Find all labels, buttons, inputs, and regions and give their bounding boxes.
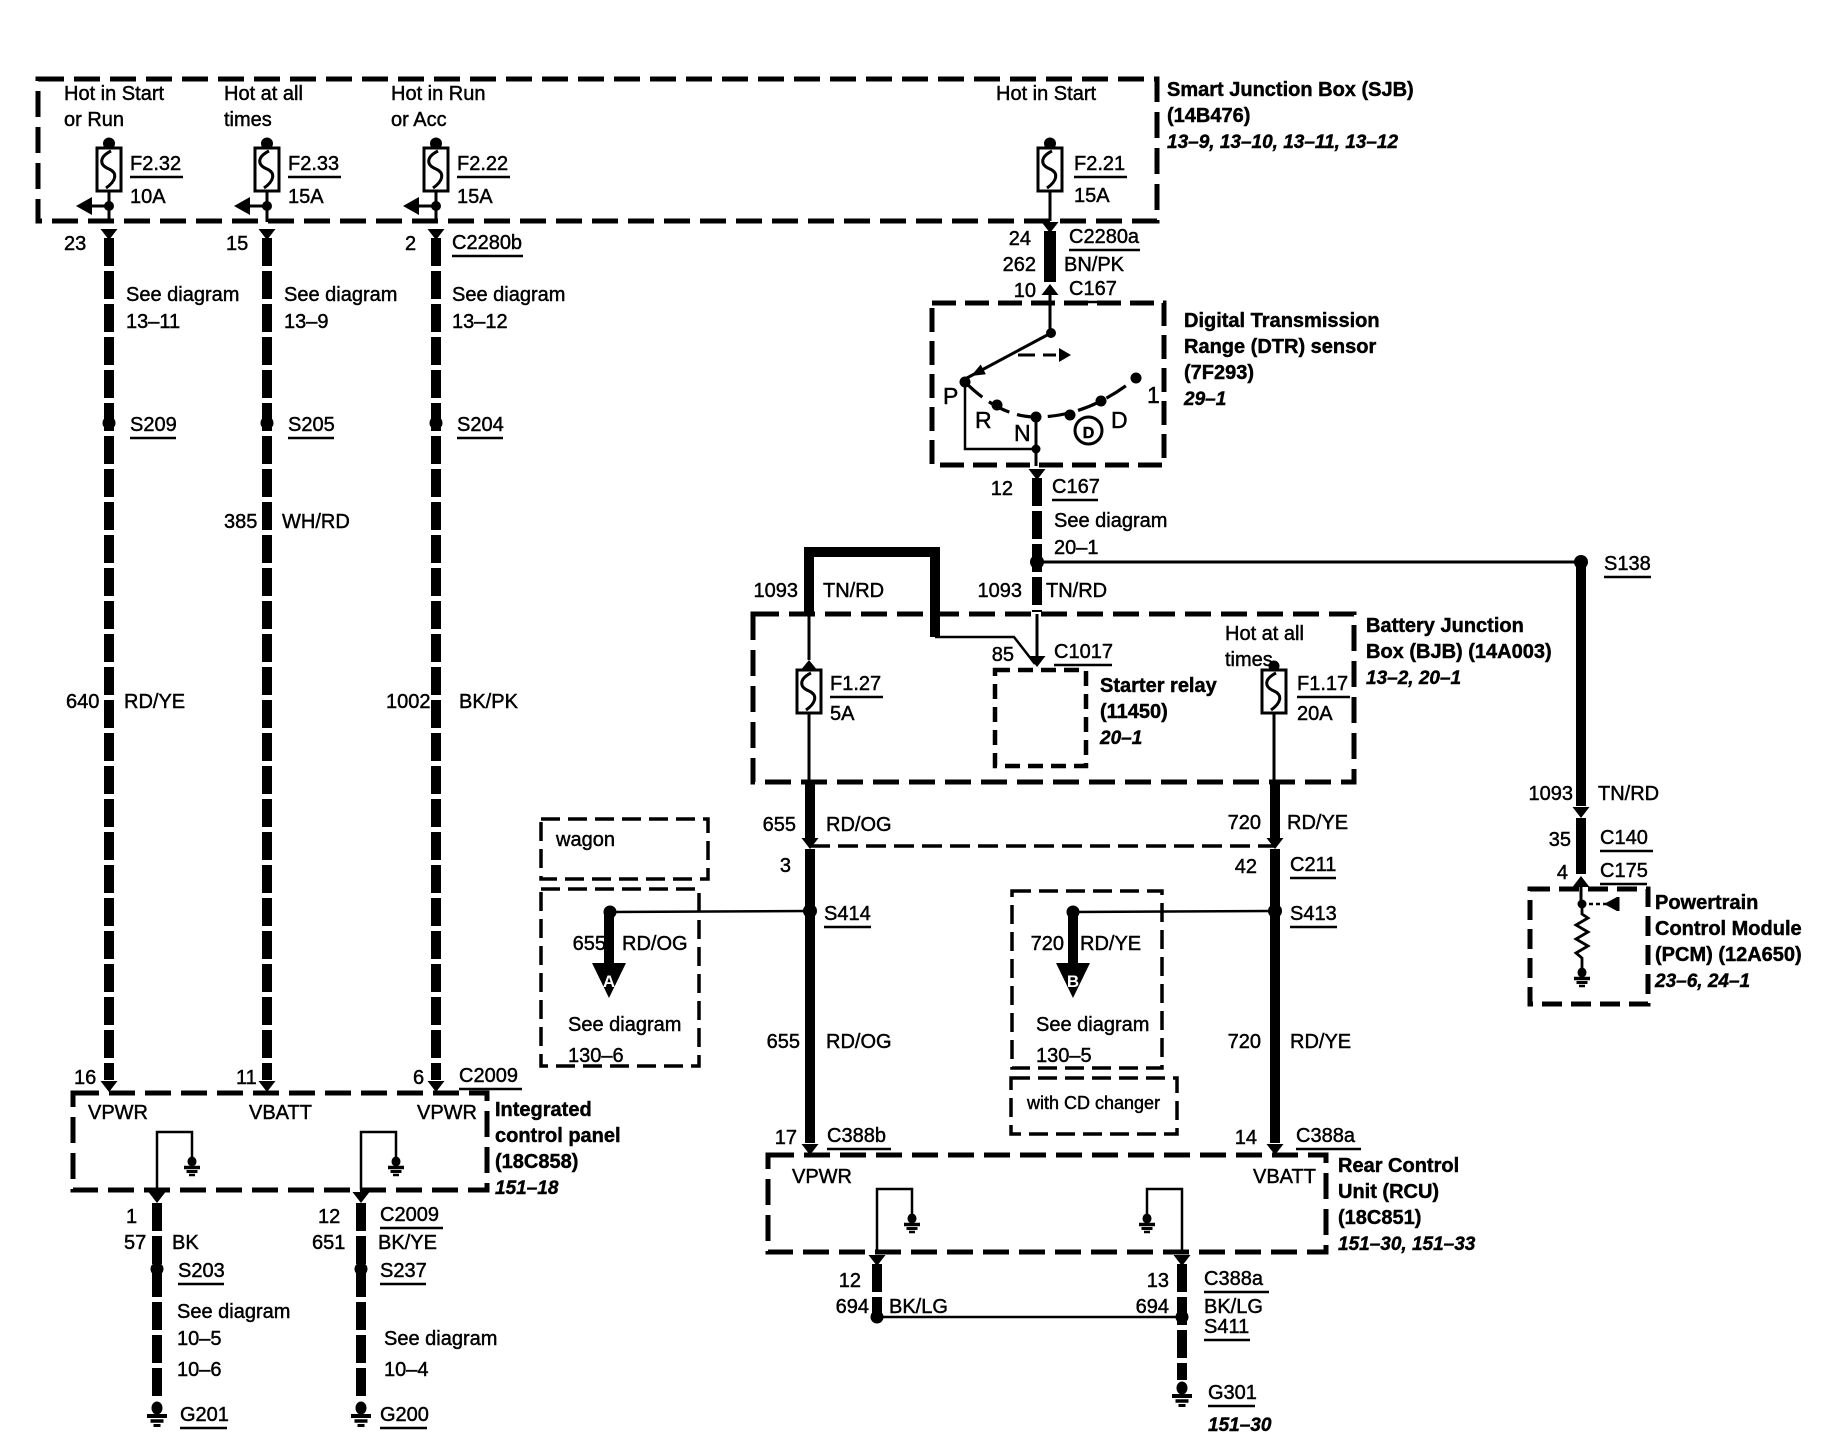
svg-text:(PCM) (12A650): (PCM) (12A650) — [1655, 944, 1802, 966]
DTR common node — [1046, 328, 1056, 338]
svg-text:RD/YE: RD/YE — [1080, 933, 1141, 955]
wire from SJB pin 23 (x=109) — [101, 229, 118, 240]
splice S204 — [430, 417, 443, 430]
svg-text:BK/LG: BK/LG — [889, 1296, 948, 1318]
svg-text:720: 720 — [1228, 812, 1261, 834]
svg-text:S413: S413 — [1290, 903, 1337, 925]
svg-text:control panel: control panel — [495, 1125, 621, 1147]
svg-text:16: 16 — [74, 1067, 96, 1089]
svg-text:WH/RD: WH/RD — [282, 511, 350, 533]
svg-text:Hot at all: Hot at all — [1225, 623, 1304, 645]
svg-text:20–1: 20–1 — [1099, 728, 1142, 749]
Rear Control Unit enclosure — [768, 1155, 1326, 1252]
svg-text:Starter relay: Starter relay — [1100, 675, 1218, 697]
svg-text:S237: S237 — [380, 1260, 427, 1282]
svg-text:See diagram: See diagram — [1054, 510, 1167, 532]
svg-text:F2.21: F2.21 — [1074, 153, 1125, 175]
svg-text:RD/YE: RD/YE — [124, 691, 185, 713]
Powertrain Control Module enclosure — [1530, 889, 1648, 1004]
wire SJB pin 24 to DTR (262 BN/PK) — [1042, 222, 1059, 233]
svg-text:VPWR: VPWR — [417, 1102, 477, 1124]
wire below F1.17 — [1273, 713, 1276, 780]
splice S138 — [1574, 555, 1588, 569]
svg-text:See diagram: See diagram — [384, 1328, 497, 1350]
svg-text:RD/OG: RD/OG — [826, 1031, 892, 1053]
svg-text:694: 694 — [836, 1296, 869, 1318]
svg-text:C2009: C2009 — [459, 1065, 518, 1087]
svg-text:BK/PK: BK/PK — [459, 691, 519, 713]
svg-text:G301: G301 — [1208, 1382, 1257, 1404]
svg-text:385: 385 — [224, 511, 257, 533]
svg-text:35: 35 — [1549, 829, 1571, 851]
wire RCU pin 12 to S411 (694 BK/LG) — [869, 1255, 886, 1266]
svg-text:130–6: 130–6 — [568, 1045, 624, 1067]
svg-text:See diagram: See diagram — [177, 1301, 290, 1323]
wire below F1.27 — [808, 713, 811, 780]
splice S203 — [151, 1263, 164, 1276]
splice S205 — [261, 417, 274, 430]
svg-text:1002: 1002 — [386, 691, 431, 713]
branch-B option box — [1012, 891, 1162, 1068]
svg-text:17: 17 — [775, 1127, 797, 1149]
svg-text:13–11: 13–11 — [126, 311, 180, 333]
svg-text:6: 6 — [413, 1067, 424, 1089]
wire RCU pin 13 to G301 (694 BK/LG) — [1174, 1255, 1191, 1266]
svg-text:20–1: 20–1 — [1054, 537, 1099, 559]
svg-text:13–2, 20–1: 13–2, 20–1 — [1366, 668, 1461, 689]
svg-text:15A: 15A — [288, 186, 324, 208]
PCM internal ground — [1578, 968, 1587, 978]
svg-text:10–6: 10–6 — [177, 1359, 222, 1381]
fuse F2.21 15A — [1044, 138, 1056, 150]
svg-text:640: 640 — [66, 691, 99, 713]
svg-text:Hot at all: Hot at all — [224, 83, 303, 105]
svg-text:Hot in Start: Hot in Start — [64, 83, 164, 105]
svg-text:BK: BK — [172, 1232, 199, 1254]
svg-text:Battery Junction: Battery Junction — [1366, 615, 1524, 637]
branch-A tap node — [604, 906, 617, 919]
svg-text:C175: C175 — [1600, 860, 1648, 882]
svg-text:Powertrain: Powertrain — [1655, 892, 1758, 914]
svg-text:2: 2 — [405, 233, 416, 255]
branch-A off-page arrow A — [604, 912, 614, 964]
wire below fuse F2.22 with branch arrow — [435, 191, 438, 222]
svg-text:F2.32: F2.32 — [130, 153, 181, 175]
svg-text:C388b: C388b — [827, 1125, 886, 1147]
RCU internal ground circuit (right) — [1147, 1189, 1182, 1252]
svg-text:1: 1 — [1147, 382, 1160, 408]
wire ICP pin 1 to G201 (57 BK) — [149, 1192, 166, 1203]
svg-text:BK/LG: BK/LG — [1204, 1296, 1263, 1318]
ICP internal ground circuit (right) — [361, 1132, 396, 1190]
svg-text:10: 10 — [1014, 280, 1036, 302]
svg-text:13–9, 13–10, 13–11, 13–12: 13–9, 13–10, 13–11, 13–12 — [1167, 132, 1398, 153]
DTR contact arc — [965, 378, 1136, 417]
branch-B link wire to S413 — [1073, 911, 1275, 912]
svg-text:720: 720 — [1228, 1031, 1261, 1053]
svg-text:VPWR: VPWR — [88, 1102, 148, 1124]
svg-text:See diagram: See diagram — [1036, 1014, 1149, 1036]
svg-text:See diagram: See diagram — [126, 284, 239, 306]
DTR contact N — [1031, 412, 1042, 423]
svg-text:(11450): (11450) — [1100, 701, 1168, 723]
wire BJB to RCU pin 17 (655 RD/OG) — [805, 780, 815, 838]
svg-text:S203: S203 — [178, 1260, 225, 1282]
svg-text:Rear Control: Rear Control — [1338, 1155, 1459, 1177]
svg-text:S209: S209 — [130, 414, 177, 436]
svg-text:S414: S414 — [824, 903, 871, 925]
branch-A option box — [541, 889, 699, 1066]
svg-text:G201: G201 — [180, 1404, 229, 1426]
PCM internal resistor — [1576, 904, 1588, 968]
DTR P-to-N link wire — [965, 382, 1036, 449]
svg-text:15A: 15A — [1074, 185, 1110, 207]
svg-text:1: 1 — [126, 1206, 137, 1228]
svg-text:10A: 10A — [130, 186, 166, 208]
svg-text:4: 4 — [1557, 862, 1568, 884]
svg-text:(7F293): (7F293) — [1184, 362, 1254, 384]
thick 1093 TN/RD jumper wire — [809, 552, 935, 637]
svg-text:1093: 1093 — [978, 580, 1023, 602]
splice S411 tie line — [871, 1311, 884, 1324]
ICP internal ground circuit (left) — [157, 1132, 192, 1190]
svg-text:C2009: C2009 — [380, 1204, 439, 1226]
Battery Junction Box enclosure — [753, 614, 1354, 782]
svg-text:11: 11 — [236, 1067, 257, 1089]
svg-text:VBATT: VBATT — [249, 1102, 312, 1124]
DTR contact D (circled) — [1065, 410, 1076, 421]
svg-text:130–5: 130–5 — [1036, 1045, 1092, 1067]
svg-text:TN/RD: TN/RD — [1046, 580, 1107, 602]
wagon option box — [541, 819, 708, 879]
svg-text:C2280a: C2280a — [1069, 226, 1140, 248]
svg-text:VPWR: VPWR — [792, 1166, 852, 1188]
branch-B off-page arrow B — [1068, 912, 1078, 964]
svg-text:Box (BJB) (14A003): Box (BJB) (14A003) — [1366, 641, 1552, 663]
ground G301 — [1177, 1382, 1188, 1395]
svg-text:or Run: or Run — [64, 109, 124, 131]
RCU internal ground circuit (left) — [877, 1189, 912, 1252]
svg-text:TN/RD: TN/RD — [1598, 783, 1659, 805]
svg-text:(18C858): (18C858) — [495, 1151, 578, 1173]
svg-text:85: 85 — [992, 644, 1014, 666]
splice S414 — [803, 904, 817, 918]
svg-text:RD/YE: RD/YE — [1290, 1031, 1351, 1053]
wire into BJB to relay coil — [1036, 614, 1039, 660]
branch-B tap node — [1067, 906, 1080, 919]
svg-text:655: 655 — [763, 814, 796, 836]
svg-text:B: B — [1067, 972, 1079, 991]
svg-text:times: times — [224, 109, 272, 131]
svg-text:S205: S205 — [288, 414, 335, 436]
svg-text:F1.27: F1.27 — [830, 673, 881, 695]
DTR motion arrow — [1018, 354, 1056, 357]
svg-text:13: 13 — [1147, 1270, 1169, 1292]
fuse F2.32 10A — [103, 138, 115, 150]
svg-text:151–30: 151–30 — [1208, 1415, 1272, 1436]
svg-text:times: times — [1225, 649, 1273, 671]
svg-text:1093: 1093 — [754, 580, 799, 602]
wire DTR pin 12 to starter relay (1093 TN/RD) — [1029, 469, 1046, 480]
svg-text:13–9: 13–9 — [284, 311, 329, 333]
wire BJB to RCU pin 14 (720 RD/YE) — [1270, 780, 1280, 838]
jumper link to relay pin 85 — [935, 637, 1035, 664]
svg-text:C211: C211 — [1290, 854, 1336, 876]
svg-text:14: 14 — [1235, 1127, 1257, 1149]
svg-text:12: 12 — [839, 1270, 861, 1292]
svg-text:BN/PK: BN/PK — [1064, 254, 1125, 276]
svg-text:5A: 5A — [830, 703, 855, 725]
svg-text:RD/YE: RD/YE — [1287, 812, 1348, 834]
svg-text:20A: 20A — [1297, 703, 1333, 725]
svg-text:VBATT: VBATT — [1253, 1166, 1316, 1188]
svg-text:RD/OG: RD/OG — [622, 933, 688, 955]
svg-text:TN/RD: TN/RD — [823, 580, 884, 602]
svg-text:Hot in Start: Hot in Start — [996, 83, 1096, 105]
branch wire to S138 — [1037, 561, 1581, 564]
svg-text:651: 651 — [312, 1232, 345, 1254]
svg-text:S204: S204 — [457, 414, 504, 436]
svg-text:See diagram: See diagram — [568, 1014, 681, 1036]
svg-text:wagon: wagon — [555, 829, 615, 851]
svg-text:with CD changer: with CD changer — [1026, 1093, 1160, 1113]
DTR rotor wiper arm to P — [965, 333, 1051, 379]
svg-text:RD/OG: RD/OG — [826, 814, 892, 836]
svg-text:Unit (RCU): Unit (RCU) — [1338, 1181, 1439, 1203]
svg-text:10–4: 10–4 — [384, 1359, 429, 1381]
DTR contact P — [960, 377, 971, 388]
svg-text:or Acc: or Acc — [391, 109, 447, 131]
svg-text:15A: 15A — [457, 186, 493, 208]
splice S209 — [103, 417, 116, 430]
svg-text:Control Module: Control Module — [1655, 918, 1802, 940]
fuse F1.17 20A — [1269, 661, 1280, 672]
branch-A link wire to S414 — [610, 911, 810, 912]
svg-text:S138: S138 — [1604, 553, 1651, 575]
svg-text:BK/YE: BK/YE — [378, 1232, 437, 1254]
svg-text:13–12: 13–12 — [452, 311, 508, 333]
svg-text:12: 12 — [318, 1206, 340, 1228]
DTR contact 1 — [1096, 396, 1107, 407]
svg-text:720: 720 — [1031, 933, 1064, 955]
wire below fuse F2.32 with branch arrow — [108, 191, 111, 222]
svg-text:(18C851): (18C851) — [1338, 1207, 1421, 1229]
svg-text:42: 42 — [1235, 856, 1257, 878]
svg-text:262: 262 — [1003, 254, 1036, 276]
ground G201 — [152, 1402, 163, 1415]
svg-text:C140: C140 — [1600, 827, 1648, 849]
wire below fuse F2.21 — [1049, 191, 1052, 221]
svg-text:See diagram: See diagram — [452, 284, 565, 306]
svg-text:S411: S411 — [1204, 1316, 1249, 1338]
Starter relay enclosure — [995, 670, 1086, 766]
svg-text:694: 694 — [1136, 1296, 1169, 1318]
svg-text:N: N — [1014, 420, 1031, 446]
svg-text:C1017: C1017 — [1054, 641, 1113, 663]
svg-text:D: D — [1111, 407, 1128, 433]
svg-text:P: P — [943, 383, 958, 409]
svg-text:C167: C167 — [1069, 278, 1117, 300]
svg-text:C388a: C388a — [1296, 1125, 1356, 1147]
svg-text:3: 3 — [780, 855, 791, 877]
svg-text:Range (DTR) sensor: Range (DTR) sensor — [1184, 336, 1376, 358]
svg-text:10–5: 10–5 — [177, 1328, 222, 1350]
svg-text:29–1: 29–1 — [1183, 389, 1226, 410]
svg-text:Integrated: Integrated — [495, 1099, 592, 1121]
wire below fuse F2.33 with branch arrow — [266, 191, 269, 222]
ground G200 — [356, 1402, 367, 1415]
svg-text:F2.22: F2.22 — [457, 153, 508, 175]
Integrated Control Panel enclosure — [73, 1093, 487, 1190]
connector C211 boundary — [810, 844, 1275, 848]
svg-text:C388a: C388a — [1204, 1268, 1264, 1290]
svg-text:57: 57 — [124, 1232, 146, 1254]
svg-text:A: A — [603, 972, 615, 991]
svg-text:C2280b: C2280b — [452, 232, 522, 254]
wire from SJB pin 15 (x=267) — [259, 229, 276, 240]
svg-text:655: 655 — [573, 933, 606, 955]
wire from SJB pin 2 (x=436) — [428, 229, 445, 240]
svg-text:Digital Transmission: Digital Transmission — [1184, 310, 1380, 332]
wire ICP pin 12 to G200 (651 BK/YE) — [353, 1192, 370, 1203]
svg-text:24: 24 — [1009, 228, 1031, 250]
svg-text:Smart Junction Box (SJB): Smart Junction Box (SJB) — [1167, 79, 1414, 101]
svg-text:23: 23 — [64, 233, 86, 255]
DTR output wire from N — [1035, 417, 1038, 466]
svg-text:151–18: 151–18 — [495, 1178, 559, 1199]
svg-text:655: 655 — [767, 1031, 800, 1053]
splice S413 — [1268, 904, 1282, 918]
Digital Transmission Range sensor enclosure — [932, 303, 1164, 465]
svg-text:15: 15 — [226, 233, 248, 255]
fuse F2.22 15A — [430, 138, 442, 150]
svg-text:C167: C167 — [1052, 476, 1100, 498]
Smart Junction Box (SJB) enclosure — [38, 79, 1157, 221]
svg-text:(14B476): (14B476) — [1167, 105, 1250, 127]
svg-text:12: 12 — [991, 478, 1013, 500]
DTR contact R — [992, 400, 1003, 411]
splice S237 — [355, 1263, 368, 1276]
junction node to S138 branch — [1030, 555, 1044, 569]
PCM internal node and stub arrow — [1578, 900, 1587, 909]
svg-text:D: D — [1083, 425, 1095, 442]
wire S138 to PCM (1093 TN/RD) — [1576, 562, 1586, 806]
with CD changer option box — [1011, 1078, 1177, 1134]
svg-text:23–6, 24–1: 23–6, 24–1 — [1654, 971, 1750, 992]
svg-text:Hot in Run: Hot in Run — [391, 83, 486, 105]
svg-text:F2.33: F2.33 — [288, 153, 339, 175]
fuse F2.33 15A — [261, 138, 273, 150]
svg-text:151–30, 151–33: 151–30, 151–33 — [1338, 1234, 1476, 1255]
fuse F1.27 5A — [808, 616, 811, 660]
svg-text:R: R — [975, 407, 992, 433]
svg-text:G200: G200 — [380, 1404, 429, 1426]
svg-text:See diagram: See diagram — [284, 284, 397, 306]
svg-text:1093: 1093 — [1529, 783, 1574, 805]
svg-text:F1.17: F1.17 — [1297, 673, 1348, 695]
